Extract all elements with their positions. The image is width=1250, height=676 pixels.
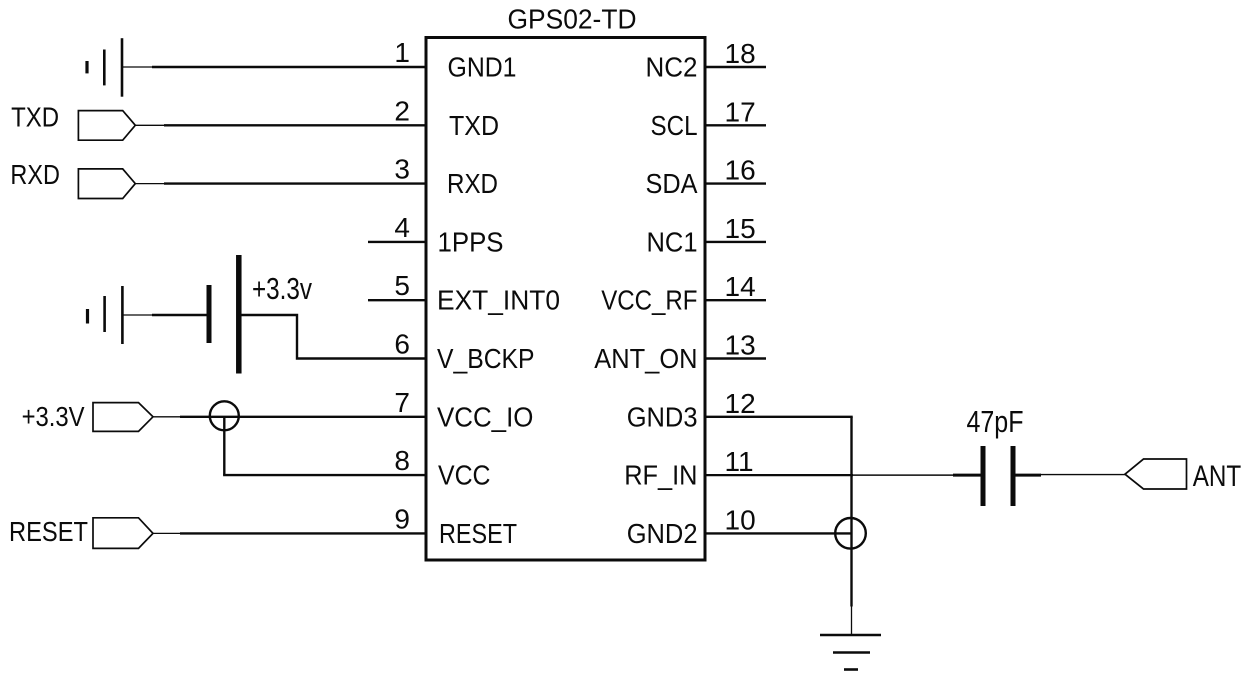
- svg-text:5: 5: [394, 270, 410, 301]
- svg-text:TXD: TXD: [11, 101, 59, 132]
- junction circle J1: [210, 401, 239, 430]
- svg-text:ANT_ON: ANT_ON: [594, 343, 697, 374]
- wire pin1: [122, 66, 154, 68]
- ground G1 (rotated): [121, 38, 124, 96]
- svg-text:15: 15: [725, 213, 756, 244]
- junction circle J2: [835, 518, 866, 549]
- svg-text:ANT: ANT: [1193, 460, 1242, 493]
- wire pin9: [153, 532, 182, 534]
- svg-text:NC2: NC2: [646, 52, 698, 83]
- svg-text:VCC_IO: VCC_IO: [437, 401, 533, 432]
- wire pin3: [135, 183, 166, 185]
- wire pin11 to capacitor: [704, 474, 853, 476]
- wire pin4 stub: [368, 241, 426, 243]
- svg-text:GND2: GND2: [627, 518, 698, 549]
- svg-text:13: 13: [725, 330, 756, 361]
- svg-text:47pF: 47pF: [967, 404, 1024, 439]
- wire pin15 stub: [704, 241, 766, 243]
- svg-text:6: 6: [394, 329, 410, 360]
- ground G3 (bottom): [820, 634, 881, 636]
- svg-text:18: 18: [725, 38, 756, 69]
- svg-text:EXT_INT0: EXT_INT0: [437, 285, 560, 316]
- connector +3.3V flag: [93, 403, 153, 432]
- svg-text:+3.3V: +3.3V: [22, 401, 85, 432]
- svg-text:RXD: RXD: [10, 159, 60, 190]
- wire pin7: [153, 416, 182, 418]
- battery BT1 positive plate: [236, 255, 242, 374]
- svg-text:17: 17: [725, 96, 756, 127]
- svg-text:16: 16: [725, 155, 756, 186]
- wire pin17 stub: [704, 124, 766, 126]
- svg-text:GPS02-TD: GPS02-TD: [508, 4, 637, 35]
- svg-text:12: 12: [725, 388, 756, 419]
- svg-text:+3.3v: +3.3v: [252, 271, 312, 306]
- svg-text:GND1: GND1: [448, 52, 517, 83]
- wire pin18 stub: [704, 66, 766, 68]
- wire pin14 stub: [704, 299, 766, 301]
- wire vertical GND3 down: [850, 417, 852, 607]
- svg-text:RF_IN: RF_IN: [624, 460, 697, 491]
- svg-text:9: 9: [394, 503, 410, 534]
- svg-text:VCC: VCC: [438, 460, 491, 491]
- svg-text:RESET: RESET: [439, 518, 517, 549]
- svg-text:11: 11: [725, 446, 754, 477]
- wire ground to battery: [122, 314, 154, 316]
- svg-text:NC1: NC1: [647, 226, 698, 257]
- connector RESET flag: [93, 518, 153, 549]
- wire junction down to pin8: [223, 417, 225, 475]
- wire capacitor to ANT: [1016, 474, 1042, 477]
- wire pin12 to vertical: [704, 416, 853, 418]
- svg-text:10: 10: [725, 504, 756, 535]
- svg-text:14: 14: [725, 271, 756, 302]
- svg-text:1: 1: [394, 37, 410, 68]
- svg-text:SCL: SCL: [651, 110, 698, 141]
- wire pin5 stub: [368, 299, 426, 301]
- svg-text:1PPS: 1PPS: [438, 226, 504, 257]
- wire pin8: [223, 474, 426, 476]
- svg-text:SDA: SDA: [646, 168, 698, 199]
- wire pin2: [135, 124, 166, 126]
- svg-text:4: 4: [394, 212, 410, 243]
- connector ANT flag: [1125, 459, 1187, 489]
- connector TXD flag: [78, 111, 135, 141]
- ground G2 (rotated, battery): [121, 286, 124, 344]
- svg-text:8: 8: [394, 445, 410, 476]
- svg-text:3: 3: [394, 154, 410, 185]
- capacitor C1 left plate: [981, 446, 986, 506]
- svg-text:2: 2: [394, 95, 410, 126]
- wire pin16 stub: [704, 182, 766, 184]
- wire battery to pin6: [242, 315, 427, 359]
- capacitor C1 right plate: [1011, 446, 1016, 506]
- svg-text:V_BCKP: V_BCKP: [437, 343, 535, 374]
- wire pin13 stub: [704, 357, 766, 359]
- svg-text:RXD: RXD: [447, 168, 498, 199]
- op-amp U1 GPS02-TD IC body: [426, 38, 705, 561]
- svg-text:TXD: TXD: [449, 110, 499, 141]
- svg-text:RESET: RESET: [9, 516, 88, 547]
- svg-text:GND3: GND3: [627, 401, 698, 432]
- battery BT1 negative plate: [207, 285, 212, 343]
- svg-text:VCC_RF: VCC_RF: [601, 285, 697, 316]
- connector RXD flag: [78, 169, 135, 199]
- wire pin10: [704, 532, 851, 534]
- svg-text:7: 7: [394, 387, 410, 418]
